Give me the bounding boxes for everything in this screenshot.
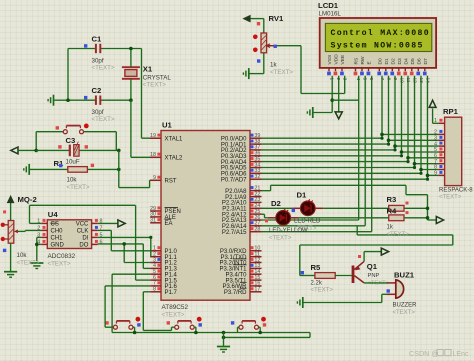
svg-text:P3.7/RD: P3.7/RD [224,290,247,296]
svg-text:<TEXT>: <TEXT> [270,69,293,76]
svg-text:<TEXT>: <TEXT> [48,261,71,268]
svg-text:RP1: RP1 [443,107,459,116]
svg-text:<TEXT>: <TEXT> [387,232,410,238]
svg-text:DI: DI [82,236,88,242]
node C2-left junction [66,98,70,102]
svg-text:<TEXT>: <TEXT> [439,195,462,201]
wire XTAL1 [141,49,143,139]
wire U4 VCC [98,222,118,224]
wire data bus to RP1 pins 2-9 with junctions [382,133,439,135]
wire button3 right leg [259,326,261,328]
svg-text:VEE: VEE [340,54,346,65]
node DO junction [122,242,126,246]
svg-text:X1: X1 [143,65,153,74]
svg-text:RV1: RV1 [269,14,285,23]
svg-text:PNP: PNP [368,273,380,279]
node DI elbow [149,236,152,239]
wire RST net [118,150,120,187]
svg-text:U1: U1 [162,121,173,130]
wire ground stem [223,333,225,346]
svg-text:RST: RST [165,179,177,185]
svg-text:D4: D4 [404,58,410,65]
svg-text:LEnc: LEnc [453,351,469,358]
svg-text:D0: D0 [378,58,384,65]
svg-text:RESPACK-8: RESPACK-8 [439,188,473,194]
svg-text:8: 8 [153,287,156,293]
svg-text:CLK: CLK [77,229,89,235]
wire RW to P2.6 [364,76,366,226]
ground (buzzer) [302,297,304,308]
svg-text:D3: D3 [397,58,403,65]
wire hairpin (right loop) [300,244,453,246]
svg-text:R3: R3 [387,195,397,204]
ground (buttons) [217,346,230,348]
wire VEE drop [344,76,346,94]
U1 right pins (P0.x, P2.x, P3.x) [250,137,262,139]
svg-text:R5: R5 [311,263,322,272]
svg-text:R4: R4 [387,207,398,216]
ground (LCD VSS) [312,107,314,118]
svg-text:P0.7/AD7: P0.7/AD7 [221,177,247,183]
svg-text:D1: D1 [384,58,390,65]
node R1 right junction [117,168,121,172]
svg-text:<TEXT>: <TEXT> [92,65,115,72]
svg-text:10k: 10k [67,177,78,184]
capacitor C2 [68,99,96,101]
svg-text:32: 32 [254,174,260,180]
microcontroller U1 AT89C52 body [161,131,250,301]
wire RS to P2.5 [358,76,360,220]
svg-text:<TEXT>: <TEXT> [269,236,292,242]
wire RP1 pin1 to power [433,122,439,124]
ground (C2 left) [53,95,55,106]
wire R3-R4 arrow stub [428,219,437,221]
power terminal (R3R4, right arrow) [436,217,443,224]
svg-text:CS: CS [51,222,59,228]
svg-text:GND: GND [51,243,65,249]
svg-text:DO: DO [79,243,88,249]
power terminal (RP1, up arrow) [429,100,436,107]
node U4 GND junction [35,243,39,247]
node bus junctions [133,331,137,335]
wire C1-C2 left vertical [67,49,69,101]
svg-text:CSDN @: CSDN @ [409,349,439,358]
wire ground bus [112,332,310,334]
svg-text:P1.7: P1.7 [165,290,178,296]
wire crystal branch [130,49,132,68]
svg-text:LED-RED: LED-RED [294,219,321,225]
svg-text:D2: D2 [391,58,397,65]
wire P1.7 to button2 [143,291,150,293]
wire button3 left leg [238,326,239,328]
svg-text:System NOW:0085: System NOW:0085 [331,41,424,50]
svg-text:C3: C3 [66,136,76,145]
svg-text:10uF: 10uF [66,159,80,166]
svg-text:CRYSTAL: CRYSTAL [143,75,172,82]
svg-text:18: 18 [150,152,156,158]
svg-text:AT89C52: AT89C52 [162,304,189,311]
power terminal (Q1, right arrow) [381,248,388,255]
power terminal (U4 VCC, right arrow) [118,220,125,227]
svg-text:MQ-2: MQ-2 [18,195,37,204]
wire VSS-RS link [332,99,359,101]
svg-text:31: 31 [150,218,156,224]
svg-text:XTAL1: XTAL1 [165,136,184,142]
svg-text:U4: U4 [48,210,59,219]
svg-text:EA: EA [165,221,173,227]
svg-text:<TEXT>: <TEXT> [143,82,166,89]
reset button [63,130,67,134]
svg-text:C1: C1 [92,35,103,44]
wire VSS to ground [331,76,333,113]
svg-text:D5: D5 [410,58,416,65]
svg-text:1k: 1k [270,62,277,69]
svg-text:VDD: VDD [334,54,340,65]
power terminal (MQ-2, up arrow) [7,196,14,203]
svg-text:<TEXT>: <TEXT> [67,184,90,191]
svg-text:ADC0832: ADC0832 [48,253,76,260]
svg-text:P2.7/A15: P2.7/A15 [222,230,247,236]
crystal X1 [122,66,140,68]
node R4 junction [426,216,430,220]
svg-text:19: 19 [150,133,156,139]
button (P1.6 key) [113,325,117,329]
wire P1.6 to button1 [105,285,150,287]
svg-text:<TEXT>: <TEXT> [92,116,115,123]
svg-text:D6: D6 [417,58,423,65]
wire CS to P1.5 [30,222,42,224]
node C3 right junction [117,149,121,153]
resistor R1 (10k) [29,168,68,170]
wire E to P2.7 [371,76,373,232]
svg-text:D1: D1 [297,191,308,200]
svg-text:9: 9 [153,175,156,181]
capacitor C1 [68,48,96,50]
wire reset button right drop [115,132,117,151]
svg-text:R1: R1 [54,159,65,168]
wire Q1 emitter to power [363,252,365,262]
wire data bus P0.0-P0.7 to LCD D0-D7 [381,76,383,139]
wire buzzer ground path [303,302,382,304]
svg-text:30pf: 30pf [92,109,104,116]
ground (U4) [30,262,43,264]
button (P1.7 key) [175,325,179,329]
node C2-crystal junction [129,98,133,102]
wire RV1 wiper to VEE [267,45,302,47]
svg-text:VSS: VSS [327,54,333,65]
svg-text:<TEXT>: <TEXT> [162,312,185,319]
wire VDD drop [338,76,340,112]
svg-text:CH1: CH1 [51,236,64,242]
svg-text:D2: D2 [271,199,281,208]
svg-text:LCD1: LCD1 [318,1,339,10]
svg-text:2.2k: 2.2k [311,281,323,287]
svg-text:BUZZER: BUZZER [393,303,418,309]
wire CLK to P1.0 [98,229,112,231]
ground (R1 left) [28,164,30,175]
svg-text:30pf: 30pf [92,58,104,65]
wire P1.4 to ground bus [112,273,150,275]
wire R5 feed [299,245,301,276]
svg-text:28: 28 [254,227,260,233]
ground (MQ-2 bottom) [4,271,17,273]
button (third key) [239,325,243,329]
svg-text:CH0: CH0 [51,229,64,235]
svg-text:10k: 10k [17,252,28,259]
wire MQ-2 wiper to CH0 [18,230,25,232]
node R3 junction [426,207,430,211]
power terminal (RV1, left arrow) [243,15,250,22]
node VCC-C3 junction [34,149,38,153]
ADC U4 ADC0832 [47,220,91,249]
svg-text:D7: D7 [423,58,429,65]
wire P2.0 to R5 [262,190,271,192]
power terminal (VDD, down arrow) [335,112,342,119]
wire button2 right leg [194,326,196,328]
wire button1 right leg [133,326,135,328]
svg-text:VCC: VCC [76,222,89,228]
svg-text:LED-YELLOW: LED-YELLOW [269,228,308,234]
svg-text:RS: RS [354,57,360,65]
wire reset button left drop [35,132,37,151]
svg-text:<TEXT>: <TEXT> [17,260,40,267]
wire XTAL2 [130,100,132,157]
svg-text:<TEXT>: <TEXT> [393,310,416,316]
node VSS junction [330,98,334,102]
svg-text:17: 17 [254,287,260,293]
wire DI to P1.1 [98,236,151,238]
svg-text:9: 9 [434,171,437,177]
U1 left pins (XTAL1,XTAL2,RST,PSEN,ALE,EA,P1.0-P1.7) [150,137,161,139]
svg-text:LM016L: LM016L [319,11,342,18]
svg-text:C2: C2 [92,86,102,95]
svg-text:RW: RW [360,56,366,64]
svg-text:1k: 1k [387,225,394,231]
ground (RV1 bottom) [248,68,250,79]
transistor Q1 (PNP) [352,266,355,284]
power terminal (RST, left arrow) [11,147,18,154]
node C1-crystal junction [129,47,133,51]
capacitor C3 (10uF) [36,149,69,151]
svg-text:BUZ1: BUZ1 [394,271,415,280]
wire CH1+GND to ground [37,236,42,238]
wire DO net [98,243,144,245]
svg-text:XTAL2: XTAL2 [165,156,184,162]
svg-text:<TEXT>: <TEXT> [311,288,334,294]
svg-text:Control MAX:0080: Control MAX:0080 [331,28,430,38]
svg-text:Q1: Q1 [367,262,378,271]
wire Q1 collector to buzzer [364,282,387,284]
